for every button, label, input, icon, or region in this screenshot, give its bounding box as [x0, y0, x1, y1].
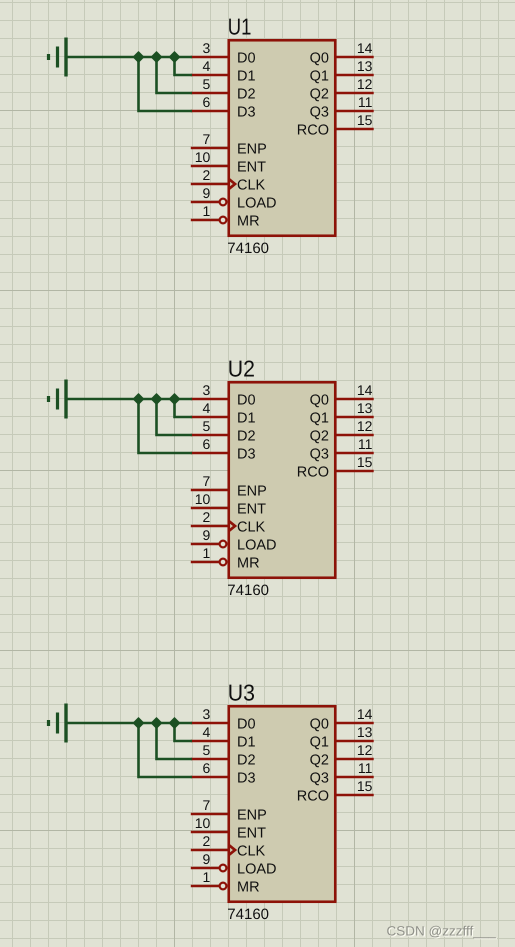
- svg-text:U1: U1: [228, 14, 252, 40]
- svg-text:U3: U3: [228, 680, 255, 706]
- svg-text:U2: U2: [228, 356, 255, 382]
- svg-text:CSDN @zzzfff___: CSDN @zzzfff___: [387, 923, 497, 938]
